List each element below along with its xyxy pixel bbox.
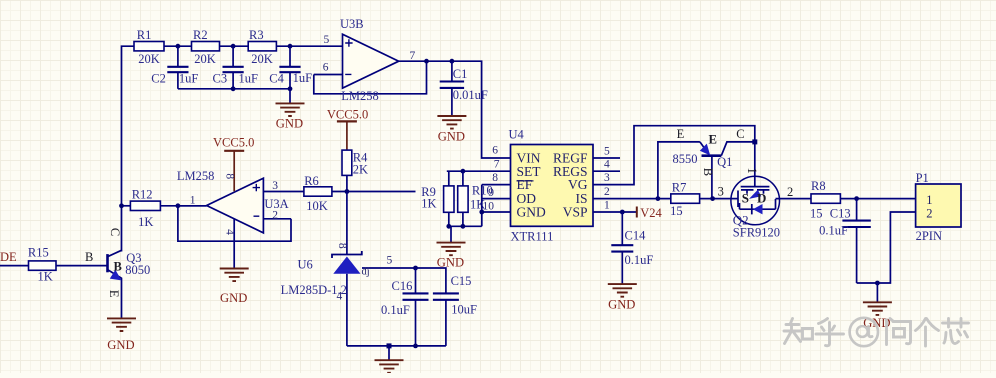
svg-text:0.1uF: 0.1uF (381, 303, 410, 317)
svg-text:U4: U4 (509, 128, 525, 142)
svg-text:GND: GND (438, 129, 465, 143)
svg-text:8550: 8550 (673, 152, 698, 166)
svg-text:8: 8 (223, 173, 235, 179)
svg-text:SFR9120: SFR9120 (733, 226, 780, 240)
svg-text:C15: C15 (451, 274, 472, 288)
svg-text:Q1: Q1 (717, 155, 732, 169)
svg-text:3: 3 (718, 185, 724, 199)
svg-text:C1: C1 (453, 67, 468, 81)
svg-text:8: 8 (336, 243, 348, 249)
svg-text:R8: R8 (811, 179, 826, 193)
svg-text:E: E (709, 133, 717, 147)
svg-text:R6: R6 (304, 174, 319, 188)
svg-text:2PIN: 2PIN (916, 229, 942, 243)
svg-text:9: 9 (488, 187, 494, 199)
svg-text:VCC5.0: VCC5.0 (327, 108, 368, 122)
svg-text:6: 6 (492, 144, 498, 156)
svg-text:GND: GND (608, 297, 635, 311)
svg-text:R12: R12 (132, 187, 153, 201)
svg-text:B: B (701, 168, 715, 176)
svg-text:0.1uF: 0.1uF (819, 224, 848, 238)
svg-text:8050: 8050 (125, 263, 150, 277)
svg-text:1: 1 (926, 193, 932, 207)
svg-text:dj: dj (362, 266, 370, 277)
svg-text:C: C (108, 228, 122, 236)
svg-text:P1: P1 (916, 171, 929, 185)
svg-text:U6: U6 (298, 258, 313, 272)
svg-text:1K: 1K (38, 269, 53, 283)
svg-text:1: 1 (604, 199, 610, 211)
svg-text:C: C (736, 127, 744, 141)
svg-text:7: 7 (410, 50, 416, 62)
svg-text:7: 7 (494, 159, 500, 171)
svg-text:8: 8 (492, 172, 498, 184)
svg-text:C3: C3 (213, 72, 228, 86)
svg-text:6: 6 (323, 62, 329, 74)
svg-text:5: 5 (604, 145, 610, 157)
svg-text:R15: R15 (28, 246, 49, 260)
svg-text:5: 5 (324, 34, 330, 46)
svg-text:C13: C13 (830, 206, 851, 220)
svg-text:10uF: 10uF (451, 302, 477, 316)
svg-text:EF: EF (517, 177, 533, 192)
svg-text:2: 2 (926, 207, 932, 221)
svg-text:U3B: U3B (340, 17, 364, 31)
svg-text:20K: 20K (251, 52, 273, 66)
svg-text:R3: R3 (249, 28, 264, 42)
svg-text:GND: GND (517, 205, 546, 220)
svg-text:1: 1 (190, 195, 196, 207)
svg-text:4: 4 (604, 159, 610, 171)
svg-text:GND: GND (276, 117, 303, 131)
svg-text:VG: VG (568, 177, 588, 192)
svg-text:GND: GND (107, 338, 134, 352)
svg-text:LM258: LM258 (341, 89, 379, 103)
svg-text:V24: V24 (640, 206, 662, 220)
svg-text:LM285D-1.2: LM285D-1.2 (281, 283, 347, 297)
svg-text:B: B (85, 250, 93, 264)
svg-text:10: 10 (483, 201, 495, 213)
svg-text:15: 15 (810, 206, 823, 220)
svg-text:1uF: 1uF (293, 71, 313, 85)
svg-text:3: 3 (272, 180, 278, 192)
svg-text:S: S (742, 190, 749, 205)
svg-text:2: 2 (604, 186, 610, 198)
svg-text:0.1uF: 0.1uF (625, 253, 654, 267)
svg-text:0.01uF: 0.01uF (453, 88, 488, 102)
svg-text:20K: 20K (194, 52, 216, 66)
svg-text:LM258: LM258 (177, 169, 215, 183)
svg-text:R2: R2 (193, 28, 208, 42)
svg-text:R7: R7 (672, 180, 687, 194)
svg-text:1K: 1K (138, 215, 153, 229)
svg-text:2: 2 (787, 185, 793, 199)
svg-text:10K: 10K (306, 199, 328, 213)
svg-text:C2: C2 (151, 72, 166, 86)
svg-text:2: 2 (272, 210, 278, 222)
svg-text:C4: C4 (269, 72, 284, 86)
svg-text:5: 5 (387, 255, 393, 267)
svg-text:GND: GND (437, 256, 464, 270)
svg-text:4: 4 (224, 229, 236, 235)
svg-text:GND: GND (220, 291, 247, 305)
svg-text:2K: 2K (353, 163, 368, 177)
svg-text:1K: 1K (421, 196, 436, 210)
svg-text:C14: C14 (625, 228, 647, 242)
svg-text:XTR111: XTR111 (511, 230, 554, 244)
svg-text:DE: DE (0, 250, 17, 264)
svg-text:1uF: 1uF (239, 72, 259, 86)
svg-text:E: E (677, 127, 685, 141)
svg-text:1: 1 (745, 167, 759, 173)
svg-text:R1: R1 (137, 28, 152, 42)
svg-text:VCC5.0: VCC5.0 (213, 136, 254, 150)
svg-text:VSP: VSP (563, 205, 588, 220)
svg-text:C16: C16 (392, 279, 413, 293)
svg-text:B: B (114, 259, 122, 273)
svg-text:3: 3 (604, 172, 610, 184)
svg-text:1uF: 1uF (179, 72, 199, 86)
svg-text:D: D (757, 190, 766, 205)
svg-text:15: 15 (670, 204, 683, 218)
svg-text:20K: 20K (138, 52, 160, 66)
svg-text:E: E (107, 290, 121, 298)
